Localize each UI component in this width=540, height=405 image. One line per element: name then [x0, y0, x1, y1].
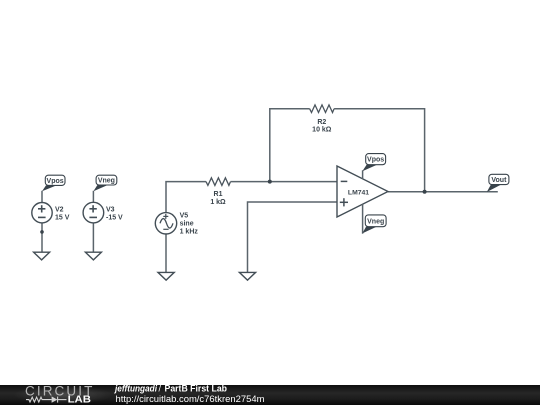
net flag Vpos (op-amp) — [362, 154, 385, 172]
node junction at output/feedback — [423, 190, 427, 194]
ground (V2) — [34, 252, 50, 260]
op-amp U1 LM741 — [337, 166, 388, 217]
svg-text:Vout: Vout — [491, 177, 507, 184]
svg-text:15 V: 15 V — [55, 214, 70, 221]
wire V5 top lead to R1 — [166, 182, 206, 213]
wire R1 to op-amp inverting input — [231, 181, 338, 183]
wire V2 top lead — [41, 191, 43, 203]
svg-text:R2: R2 — [317, 119, 326, 126]
svg-text:V3: V3 — [106, 206, 115, 213]
ground (op-amp non-inverting input) — [239, 272, 255, 280]
wire V3 top lead — [92, 191, 94, 203]
ground (V3) — [85, 252, 101, 260]
svg-text:LM741: LM741 — [348, 189, 369, 196]
voltage source V2 — [32, 203, 52, 223]
wire V5 bottom lead — [165, 234, 167, 272]
CircuitLab footer bar — [0, 385, 540, 405]
net flag Vneg (V3) — [93, 175, 116, 191]
svg-text:Vpos: Vpos — [47, 178, 64, 185]
svg-text:Vneg: Vneg — [98, 178, 115, 185]
wire op-amp output — [388, 191, 498, 193]
wire R2 to output node — [334, 109, 425, 192]
svg-text:-15 V: -15 V — [106, 214, 123, 221]
op-amp Vneg power pin — [362, 204, 364, 234]
svg-text:Vneg: Vneg — [367, 219, 384, 226]
svg-text:V2: V2 — [55, 206, 64, 213]
svg-text:1 kΩ: 1 kΩ — [210, 199, 226, 206]
CircuitLab logo: wire with resistor and diode — [26, 397, 67, 403]
ground (V5) — [158, 272, 174, 280]
svg-text:V5: V5 — [180, 213, 189, 220]
net flag Vout — [487, 174, 509, 192]
wire feedback riser — [270, 109, 310, 182]
svg-text:sine: sine — [180, 221, 194, 228]
voltage source V5 sine — [155, 213, 176, 234]
resistor R2 — [310, 105, 335, 113]
op-amp Vpos power pin — [362, 170, 364, 179]
svg-text:R1: R1 — [214, 191, 223, 198]
svg-text:Vpos: Vpos — [367, 157, 384, 164]
svg-text:10 kΩ: 10 kΩ — [312, 127, 332, 134]
voltage source V3 — [83, 202, 104, 223]
resistor R1 — [206, 178, 231, 186]
node junction on V2 ground wire — [40, 230, 44, 234]
net flag Vpos (V2) — [42, 175, 65, 191]
wire V3 bottom lead — [92, 223, 94, 252]
wire V2 bottom lead — [41, 223, 43, 252]
net flag Vneg (op-amp) — [362, 215, 386, 234]
svg-text:1 kHz: 1 kHz — [180, 229, 199, 236]
wire op-amp + input to ground — [248, 202, 338, 272]
node junction at R1/feedback — [268, 180, 272, 184]
